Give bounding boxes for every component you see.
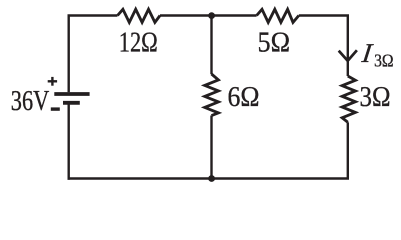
wire left rail top + top rail left segment [69, 16, 118, 93]
wire left rail below battery [67, 104, 69, 180]
battery minus sign [51, 107, 60, 110]
wire top rail right segment + right rail upper [299, 16, 348, 77]
battery V1 top plate (+) [54, 92, 89, 96]
wire top rail middle segment [160, 14, 257, 16]
battery plus sign [48, 77, 57, 86]
node junction dot bottom [208, 175, 215, 182]
svg-text:I: I [359, 38, 375, 68]
node junction dot top [208, 12, 215, 19]
resistor R 3ohm [342, 76, 355, 122]
svg-text:6Ω: 6Ω [228, 81, 260, 113]
resistor R 12ohm [118, 9, 161, 22]
battery V1 bottom plate (-) [63, 101, 80, 105]
wire middle branch upper [210, 16, 212, 75]
svg-text:12Ω: 12Ω [119, 26, 158, 58]
svg-text:3Ω: 3Ω [360, 81, 391, 113]
wire middle branch lower [210, 116, 212, 179]
wire right rail below 3ohm [347, 122, 349, 179]
resistor R 5ohm [257, 9, 299, 22]
svg-text:5Ω: 5Ω [258, 26, 291, 58]
svg-text:36V: 36V [11, 85, 50, 117]
current arrow head I3 [339, 50, 357, 61]
svg-text:3Ω: 3Ω [374, 51, 394, 71]
wire bottom rail [68, 177, 350, 179]
resistor R 6ohm [205, 74, 219, 116]
